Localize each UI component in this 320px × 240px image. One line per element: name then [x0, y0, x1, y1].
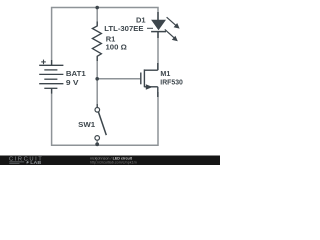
battery BAT1: [39, 60, 63, 94]
LED arrow 2: [165, 29, 178, 41]
switch SW1: [95, 104, 106, 140]
wire LED cathode to drain: [157, 32, 159, 70]
node junction top (resistor / top rail): [95, 6, 99, 10]
wire left lower from battery to bottom rail: [52, 88, 158, 145]
svg-text:LAB: LAB: [30, 160, 41, 165]
transistor M1 NMOS: [141, 63, 158, 97]
wire switch to bottom rail: [96, 140, 98, 145]
svg-text:SW1: SW1: [78, 120, 95, 129]
watermark credit text: [90, 156, 137, 164]
svg-text:9 V: 9 V: [66, 78, 79, 87]
svg-text:IRF530: IRF530: [160, 78, 183, 87]
wire top rail: [52, 8, 158, 66]
svg-text:BAT1: BAT1: [66, 69, 86, 78]
battery plus sign: [41, 60, 46, 65]
wire resistor bottom to gate junction: [96, 56, 98, 79]
LED label tick: [147, 27, 153, 29]
wire resistor branch upper: [96, 8, 98, 27]
node junction bottom (switch / bottom rail): [95, 142, 99, 146]
LED arrow 1: [167, 17, 180, 28]
node junction gate: [95, 77, 99, 81]
svg-text:http://circuitlab.com/c/npk1m: http://circuitlab.com/c/npk1m: [90, 160, 137, 164]
wire gate junction to switch: [96, 79, 98, 108]
watermark logo CIRCUIT LAB: [9, 156, 42, 164]
svg-text:100 Ω: 100 Ω: [106, 43, 127, 52]
resistor R1: [92, 22, 101, 62]
watermark bar: [0, 156, 220, 166]
transistor arrow: [146, 84, 153, 90]
LED D1: [151, 12, 166, 38]
svg-text:LTL-307EE: LTL-307EE: [104, 24, 143, 33]
wire gate horizontal: [97, 78, 140, 80]
